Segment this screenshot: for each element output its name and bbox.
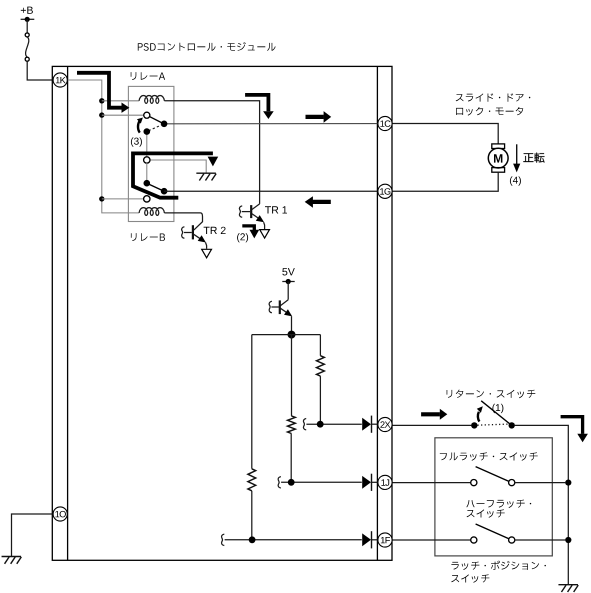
relay B contact throw [161, 188, 168, 195]
resistor R2 [288, 416, 296, 434]
bold arrow (2) head [250, 230, 260, 239]
label (2) [237, 233, 248, 242]
bold arrow from 1K head [122, 103, 130, 113]
wire +B supply tap bar [21, 18, 35, 20]
pin 1J [378, 475, 392, 489]
pin 1K [53, 73, 67, 87]
wire middle branch down [291, 335, 293, 416]
node ground rail junction 1J [565, 480, 571, 486]
wire 1F line [225, 539, 362, 541]
label latch position switch line2 [451, 574, 489, 582]
label half latch switch line1 [466, 500, 531, 508]
wire to pin 1K [27, 61, 52, 80]
wire 5V down [287, 282, 289, 300]
relay A ground contact [144, 157, 150, 163]
label forward rotation [523, 153, 544, 163]
wire to relay B contact [102, 198, 144, 200]
wire relay B coil to TR2 collector [164, 213, 202, 230]
ground TR2 open triangle [202, 249, 212, 257]
relay A contact dashed alternate [149, 125, 162, 131]
PSD control module box outer [52, 66, 392, 560]
wire feed to relay B coil [102, 199, 139, 213]
diode D3 cathode bar [371, 531, 373, 548]
wire TR2 emitter down [206, 242, 207, 248]
transistor TR2 emitter arrow [198, 235, 206, 242]
bold arrow right near return switch [421, 412, 440, 416]
wire D2 to 1J [371, 481, 378, 483]
label full latch switch [440, 452, 538, 460]
transistor TR2 base bar [192, 225, 194, 239]
wire relay A lower feed [146, 132, 148, 158]
wire 1F line squiggle [222, 534, 225, 545]
label slide door lock motor line1 [456, 93, 531, 101]
node Q1 output junction [288, 331, 296, 339]
pin 1G [378, 184, 392, 198]
transistor Q1 emitter arrow [284, 309, 292, 316]
label +B [21, 7, 33, 14]
node 5V tap [286, 279, 291, 284]
label half latch switch line2 [467, 509, 505, 517]
return switch throw [509, 422, 515, 428]
label latch position switch line1 [451, 561, 546, 570]
wire full latch to ground rail [515, 482, 566, 484]
wire 1J line [281, 481, 362, 483]
wire +B down to connector [26, 19, 28, 33]
bold arrow down to 1C wire shaft [245, 95, 268, 111]
transistor TR2 base squiggle [182, 227, 185, 238]
half latch switch contact left [471, 537, 477, 543]
node junction relay B contact feed [99, 196, 104, 201]
pin 1O [53, 507, 67, 521]
wire relay A ground contact down [146, 163, 148, 181]
wire 1F to half latch switch [392, 539, 471, 541]
relay A coil [139, 96, 164, 104]
motor terminal bottom [492, 168, 505, 173]
full latch switch contact left [471, 480, 477, 486]
label TR 2 [204, 227, 226, 234]
label relay A [131, 72, 165, 80]
full latch switch arm [476, 467, 509, 482]
ground relay A [196, 172, 216, 174]
transistor TR2 base lead [184, 232, 192, 234]
wire TR1 emitter down [264, 222, 265, 229]
wire 1K internal feed [68, 80, 102, 199]
bold arrow left below 1G [312, 200, 330, 204]
label TR 1 [265, 206, 287, 213]
diode D1 cathode bar [371, 416, 373, 433]
label (4) [510, 176, 521, 185]
transistor Q1 base squiggle [269, 301, 272, 312]
wire contact to ground A [150, 160, 207, 173]
return switch pole [471, 422, 477, 428]
transistor TR1 emitter lead [252, 214, 263, 222]
wire R2 to 1J node [290, 434, 292, 483]
relay A contact throw right [161, 121, 168, 128]
bold arrow right above 1C [306, 115, 324, 119]
label (3) [131, 137, 142, 146]
wire Q1 emitter to junction [291, 316, 293, 334]
relay A contact throw lower [144, 128, 151, 135]
node 1J junction [288, 479, 295, 486]
bold arrow elbow top right [561, 417, 583, 434]
wire to relay A contact [102, 114, 144, 116]
wire half latch to ground rail [515, 539, 566, 541]
relay A contact common [144, 112, 150, 118]
transistor Q1 emitter lead [281, 308, 292, 315]
ground bottom right [558, 584, 578, 586]
wire relay B contact to 1G [164, 190, 378, 192]
wire R3 to 1F node [251, 491, 253, 540]
transistor TR1 base squiggle [239, 206, 242, 217]
label return switch [447, 390, 536, 399]
wire to relay A coil [102, 100, 139, 102]
connector terminal upper [25, 33, 29, 37]
pin 2X [378, 417, 392, 431]
relay B thin arm [147, 183, 164, 191]
relay A contact arm [147, 115, 164, 123]
label M [494, 154, 502, 162]
arrow forward rotation [516, 144, 518, 164]
wire 1J to full latch switch [392, 482, 471, 484]
label (1) [492, 404, 503, 413]
transistor TR1 collector lead [252, 204, 260, 210]
diode D2 cathode bar [371, 474, 373, 491]
transistor TR1 base bar [250, 205, 252, 218]
relay box [128, 86, 174, 221]
wire 2X line squiggle [303, 419, 306, 430]
transistor TR1 emitter arrow [256, 215, 264, 222]
bold arrow elbow head [577, 434, 588, 443]
relay B coil [139, 208, 164, 216]
wire right branch down [319, 335, 321, 356]
wire D1 to 2X [371, 423, 378, 425]
wire 1C to motor [392, 124, 498, 145]
half latch switch arm [476, 524, 509, 539]
latch position switch box [435, 438, 552, 556]
diode D2 triangle [362, 476, 371, 489]
full latch switch contact right [509, 480, 515, 486]
motor M1 body [488, 148, 508, 168]
transistor TR1 base lead [242, 211, 250, 213]
return switch dotted closed position [478, 424, 509, 425]
wire D3 to 1F [371, 539, 378, 541]
return switch arm [481, 401, 512, 426]
label 5V [282, 268, 295, 275]
transistor Q1 collector lead [281, 300, 289, 306]
fusible link squiggle [26, 37, 29, 57]
wire 1J line squiggle [278, 477, 281, 488]
node ground rail junction 1F [565, 537, 571, 543]
label slide door lock motor line2 [456, 107, 523, 116]
return switch actuate arrow [478, 412, 480, 422]
node +B tap [25, 17, 30, 22]
resistor R1 [317, 356, 325, 376]
wire relay A contact output to 1C [167, 123, 378, 125]
wire 2X to return switch [392, 424, 471, 426]
bold arrow to ground head [208, 157, 219, 167]
node junction coil A feed [99, 98, 104, 103]
module inner border left [67, 66, 69, 560]
diode D1 triangle [362, 418, 371, 431]
resistor R3 [248, 469, 256, 491]
half latch switch contact right [509, 537, 515, 543]
transistor TR2 emitter lead [194, 234, 205, 242]
transistor Q1 base lead [271, 306, 279, 308]
node 1F junction [249, 536, 256, 543]
wire relay A coil to TR1 collector [164, 101, 259, 204]
ground TR1 open triangle [260, 230, 270, 239]
relay A actuate arrow (3) [138, 121, 140, 133]
relay B arm pivot upper [144, 180, 151, 187]
node junction contact A feed [99, 112, 104, 117]
wire 5V tap bar [282, 281, 294, 283]
ground 1O [2, 556, 22, 558]
wire 2X line [306, 423, 361, 425]
wire junction horizontal [252, 334, 321, 336]
bold arrow down to 1C head [263, 111, 274, 119]
bold current path relay area [133, 153, 213, 197]
wire R1 to 2X node [319, 376, 321, 424]
pin 1C [378, 116, 392, 130]
wire left branch down [251, 335, 253, 469]
label relay B [131, 233, 165, 241]
module inner border right [376, 66, 378, 560]
relay B contact common [144, 196, 150, 202]
wire return switch to ground rail [515, 425, 569, 584]
node 2X junction [317, 421, 324, 428]
bold arrow from 1K shaft [77, 73, 122, 108]
motor terminal top [492, 144, 505, 149]
wire 1O to ground [12, 514, 53, 556]
diode D3 triangle [362, 533, 371, 546]
label PSD control module [138, 42, 276, 51]
bold arrow (2) shaft [242, 226, 254, 230]
pin 1F [378, 533, 392, 547]
wire motor to 1G [392, 172, 498, 191]
connector terminal lower [25, 57, 29, 61]
transistor Q1 base bar [279, 300, 281, 314]
